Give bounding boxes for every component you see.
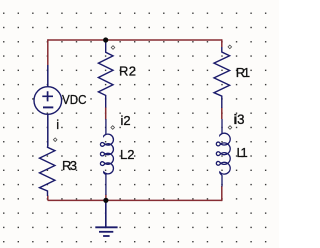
wire left rail upper (47, 39, 49, 65)
pin marker R2 (111, 46, 115, 50)
wire mid between R2 and L2 (105, 107, 107, 120)
svg-text:L2: L2 (120, 147, 135, 162)
pin marker R1 (228, 45, 232, 49)
wire top rail (48, 39, 222, 41)
wire left rail lower (47, 196, 49, 201)
wire mid above bottom junction (105, 195, 107, 201)
pin marker L2 (111, 126, 115, 130)
VDC plus sign (42, 91, 53, 101)
svg-text:VDC: VDC (62, 92, 87, 107)
ground (95, 200, 117, 236)
node junction top (103, 37, 108, 42)
svg-text:i2: i2 (121, 113, 131, 128)
node junction bottom (103, 198, 108, 203)
inductor L1 (216, 119, 230, 187)
resistor R3 (40, 147, 55, 197)
voltage source VDC circle (34, 87, 62, 115)
wire right between R1 and L1 (221, 108, 223, 120)
resistor R1 (214, 47, 230, 108)
wire right rail upper (221, 39, 223, 47)
svg-text:L1: L1 (237, 145, 248, 160)
svg-text:R3: R3 (62, 158, 77, 173)
wire right rail lower (221, 186, 223, 201)
svg-text:R1: R1 (236, 65, 250, 80)
pin marker R3 (53, 138, 57, 142)
resistor R2 (98, 42, 113, 108)
inductor L2 (100, 119, 113, 195)
pin marker L1 (228, 126, 232, 130)
svg-text:R2: R2 (119, 64, 136, 79)
VDC minus sign (43, 106, 53, 108)
wire bottom rail (48, 199, 222, 201)
voltage source VDC leads (47, 65, 49, 147)
svg-text:3: 3 (237, 111, 245, 127)
svg-text:i: i (56, 117, 59, 132)
